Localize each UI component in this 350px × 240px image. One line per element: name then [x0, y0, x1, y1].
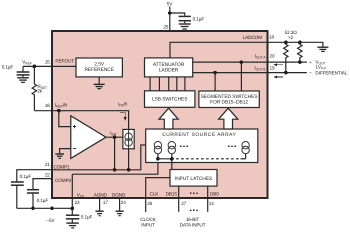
- svg-text:CURRENT SOURCE ARRAY: CURRENT SOURCE ARRAY: [162, 132, 236, 138]
- svg-text:16: 16: [45, 103, 50, 108]
- svg-text:COMP1: COMP1: [54, 164, 71, 169]
- svg-text:0.1µF: 0.1µF: [37, 198, 49, 203]
- svg-text:26: 26: [147, 201, 152, 206]
- svg-text:INPUT: INPUT: [141, 223, 155, 228]
- svg-text:DGND: DGND: [112, 192, 126, 197]
- svg-text:27: 27: [181, 201, 186, 206]
- svg-text:0.1µF: 0.1µF: [20, 174, 32, 179]
- svg-text:19: 19: [270, 65, 275, 70]
- svg-text:×2: ×2: [288, 35, 294, 40]
- svg-text:–5V: –5V: [47, 218, 56, 223]
- svg-text:0.1µF: 0.1µF: [193, 16, 205, 21]
- svg-text:18: 18: [269, 35, 274, 40]
- svg-text:2.5V: 2.5V: [94, 62, 105, 68]
- svg-text:COMP2: COMP2: [55, 178, 72, 183]
- svg-text:25: 25: [163, 25, 168, 30]
- svg-text:AGND: AGND: [94, 192, 108, 197]
- svg-text:0.1µF: 0.1µF: [81, 215, 93, 220]
- svg-text:2k: 2k: [37, 89, 42, 94]
- svg-text:22: 22: [45, 172, 50, 177]
- svg-text:23: 23: [75, 200, 80, 205]
- svg-text:20: 20: [270, 54, 275, 59]
- svg-text:−: −: [309, 70, 312, 75]
- svg-text:DB0: DB0: [210, 191, 219, 196]
- svg-text:16-BIT: 16-BIT: [186, 217, 200, 222]
- svg-text:CLOCK: CLOCK: [140, 217, 157, 222]
- svg-text:FOR DB15–DB12: FOR DB15–DB12: [210, 100, 248, 106]
- svg-text:REFERENCE: REFERENCE: [84, 67, 114, 73]
- svg-text:REFOUT: REFOUT: [55, 59, 74, 64]
- svg-text:VREF: VREF: [22, 60, 32, 66]
- svg-text:5V: 5V: [167, 2, 173, 7]
- svg-text:+: +: [309, 60, 312, 65]
- svg-text:SEGMENTED SWITCHES: SEGMENTED SWITCHES: [201, 94, 259, 100]
- svg-text:INPUT LATCHES: INPUT LATCHES: [175, 176, 213, 182]
- svg-text:0.1µF: 0.1µF: [2, 65, 14, 70]
- svg-text:CLK: CLK: [150, 191, 160, 196]
- svg-text:24: 24: [121, 200, 126, 205]
- svg-text:DB15: DB15: [166, 191, 178, 196]
- svg-text:ATTENUATOR: ATTENUATOR: [153, 62, 185, 68]
- svg-text:21: 21: [45, 162, 50, 167]
- svg-text:14: 14: [209, 201, 214, 206]
- svg-text:LADCOM: LADCOM: [243, 35, 263, 40]
- svg-text:15: 15: [45, 59, 50, 64]
- svg-text:LSB SWITCHES: LSB SWITCHES: [152, 96, 188, 102]
- svg-text:LADDER: LADDER: [159, 68, 179, 74]
- svg-text:17: 17: [103, 200, 108, 205]
- svg-text:DATA INPUT: DATA INPUT: [180, 223, 206, 228]
- svg-text:DIFFERENTIAL: DIFFERENTIAL: [315, 70, 347, 75]
